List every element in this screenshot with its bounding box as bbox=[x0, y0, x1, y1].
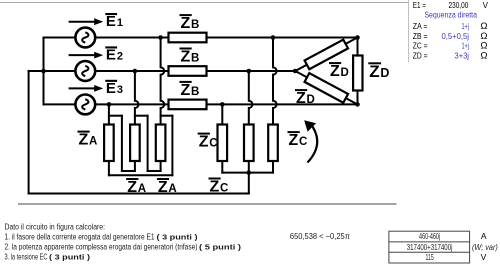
svg-text:A: A bbox=[168, 183, 176, 195]
svg-text:3: 3 bbox=[117, 84, 123, 96]
svg-text:115: 115 bbox=[426, 253, 435, 262]
svg-text:ZC =: ZC = bbox=[413, 42, 428, 51]
svg-text:E: E bbox=[106, 13, 116, 30]
svg-text:Z: Z bbox=[210, 178, 220, 195]
svg-text:Ω: Ω bbox=[480, 51, 487, 62]
svg-text:317400+317400j: 317400+317400j bbox=[407, 243, 453, 252]
svg-text:ZD =: ZD = bbox=[413, 52, 428, 61]
svg-text:Z: Z bbox=[158, 179, 168, 196]
svg-text:0,5+0,5j: 0,5+0,5j bbox=[442, 32, 470, 41]
svg-text:ZB =: ZB = bbox=[413, 32, 428, 41]
svg-text:E: E bbox=[106, 80, 116, 97]
svg-text:2. la potenza apparente comple: 2. la potenza apparente complessa erogat… bbox=[5, 243, 198, 252]
svg-text:V: V bbox=[481, 252, 487, 262]
svg-text:3. la tensione EC: 3. la tensione EC bbox=[5, 253, 48, 262]
svg-text:D: D bbox=[341, 67, 349, 79]
svg-text:Sequenza diretta: Sequenza diretta bbox=[424, 11, 477, 20]
svg-text:2: 2 bbox=[117, 51, 123, 63]
svg-text:460-460j: 460-460j bbox=[419, 232, 440, 241]
svg-text:V: V bbox=[483, 1, 489, 10]
svg-text:1. il fasore della corrente er: 1. il fasore della corrente erogata dal … bbox=[5, 233, 155, 242]
svg-text:650,538 < −0,25π: 650,538 < −0,25π bbox=[290, 232, 350, 241]
svg-text:Z: Z bbox=[330, 63, 340, 80]
svg-text:Z: Z bbox=[79, 132, 89, 149]
svg-text:( 3 punti ): ( 3 punti ) bbox=[49, 253, 91, 262]
svg-text:Z: Z bbox=[181, 82, 191, 99]
svg-text:E1 =: E1 = bbox=[413, 1, 426, 10]
svg-text:A: A bbox=[89, 136, 97, 148]
svg-text:A: A bbox=[138, 183, 146, 195]
svg-text:C: C bbox=[209, 138, 217, 150]
svg-text:( 3 punti ): ( 3 punti ) bbox=[157, 233, 199, 242]
svg-text:D: D bbox=[307, 94, 315, 106]
svg-text:D: D bbox=[380, 66, 389, 80]
svg-text:E: E bbox=[106, 47, 116, 64]
svg-text:1: 1 bbox=[117, 17, 123, 29]
svg-text:(W; var): (W; var) bbox=[472, 243, 498, 252]
svg-text:1+j: 1+j bbox=[462, 22, 470, 31]
svg-text:A: A bbox=[481, 231, 487, 241]
svg-text:Z: Z bbox=[127, 179, 137, 196]
svg-text:B: B bbox=[191, 86, 199, 98]
svg-text:1+j: 1+j bbox=[462, 42, 470, 51]
svg-text:Z: Z bbox=[181, 48, 191, 65]
svg-text:C: C bbox=[299, 136, 307, 148]
svg-text:3+3j: 3+3j bbox=[455, 52, 470, 61]
svg-text:B: B bbox=[191, 19, 199, 31]
svg-text:B: B bbox=[191, 52, 199, 64]
svg-text:Z: Z bbox=[181, 15, 191, 32]
svg-text:Z: Z bbox=[289, 132, 299, 149]
svg-text:Z: Z bbox=[369, 62, 379, 81]
svg-text:( 5 punti ): ( 5 punti ) bbox=[199, 243, 242, 252]
svg-text:Dato il circuito in figura cal: Dato il circuito in figura calcolare: bbox=[5, 223, 106, 232]
svg-text:ZA =: ZA = bbox=[413, 22, 428, 31]
svg-text:C: C bbox=[220, 182, 228, 194]
svg-text:Z: Z bbox=[296, 90, 306, 107]
svg-text:Z: Z bbox=[199, 134, 209, 151]
svg-text:230,00: 230,00 bbox=[449, 1, 469, 10]
